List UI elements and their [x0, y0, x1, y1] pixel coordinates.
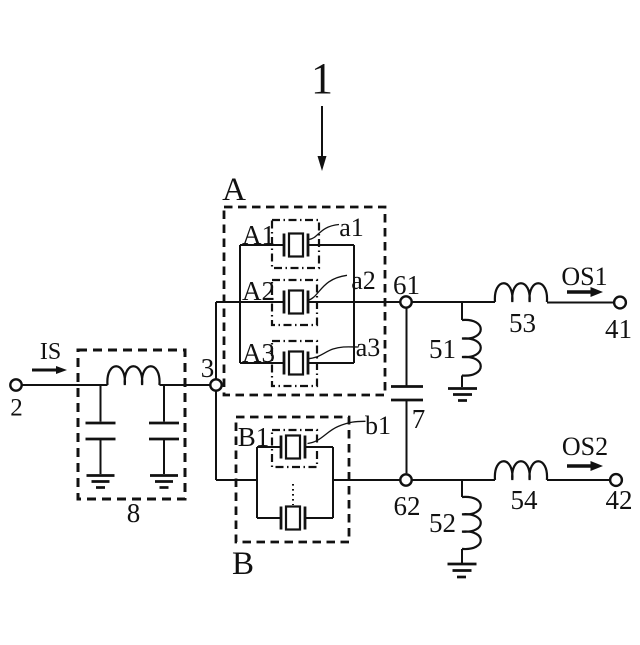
svg-text:IS: IS	[40, 339, 61, 365]
wire row B1	[257, 446, 281, 448]
matching circuit dashed box 8	[78, 350, 185, 499]
arrow from label 1	[318, 106, 327, 171]
svg-text:a2: a2	[351, 266, 376, 295]
IS input arrow	[32, 366, 67, 374]
wire row A1	[240, 244, 284, 246]
wire node 3 riser to block B	[216, 479, 257, 481]
wire block B to node 62	[333, 479, 400, 481]
svg-text:A: A	[222, 172, 246, 208]
svg-text:54: 54	[511, 485, 539, 515]
wire inductor 53 to terminal 41	[547, 302, 614, 304]
capacitor 7	[391, 387, 423, 401]
leader a1	[309, 225, 339, 240]
block A dashed box	[224, 207, 385, 395]
resonator (bottom, unlabeled) in B	[281, 507, 305, 530]
leader b1	[308, 421, 366, 443]
wire node 61 to inductor 53	[412, 301, 495, 303]
wire row B bottom resonator	[257, 517, 281, 519]
ground (right, box 8)	[150, 476, 178, 488]
leader a3	[307, 347, 359, 359]
wire row A2	[216, 301, 284, 303]
dash-dot box around resonator A1	[272, 220, 319, 268]
svg-text:7: 7	[412, 404, 426, 434]
resonator A2	[284, 291, 308, 314]
wire inductor 54 to terminal 42	[547, 479, 610, 481]
resonator B1	[281, 436, 305, 459]
wire node 62 to inductor 54	[412, 479, 495, 481]
input terminal 2	[10, 379, 21, 390]
ellipsis dotted wire in B	[292, 484, 294, 505]
wire node 61 down to capacitor 7	[406, 308, 408, 386]
svg-text:41: 41	[605, 314, 632, 344]
svg-text:52: 52	[429, 508, 456, 538]
svg-text:53: 53	[509, 308, 536, 338]
OS1 output arrow	[567, 287, 603, 297]
svg-text:B: B	[232, 546, 254, 582]
node 3 terminal circle	[210, 379, 221, 390]
svg-text:A1: A1	[242, 220, 275, 250]
right bus wire in A	[353, 245, 355, 363]
node 62 circle	[400, 474, 411, 485]
node 3 riser wire (up)	[215, 302, 217, 379]
svg-text:8: 8	[127, 498, 141, 528]
svg-text:61: 61	[393, 270, 420, 300]
shunt inductor 51	[462, 302, 481, 387]
inductor in box 8	[107, 366, 159, 385]
svg-text:1: 1	[311, 54, 333, 103]
resonator A3	[284, 352, 308, 375]
capacitor (right) in box 8	[149, 385, 179, 474]
svg-text:62: 62	[394, 491, 421, 521]
dash-dot box around resonator A2	[272, 280, 317, 325]
inductor 54	[495, 461, 547, 480]
svg-text:OS2: OS2	[562, 432, 608, 461]
ground (left, box 8)	[87, 476, 115, 488]
node 3 riser wire (down)	[215, 391, 217, 480]
ground under 52	[448, 564, 477, 577]
resonator A1	[284, 234, 308, 257]
svg-text:A2: A2	[242, 276, 275, 306]
svg-text:3: 3	[201, 353, 215, 383]
svg-text:42: 42	[606, 485, 633, 515]
node 61 circle	[400, 296, 411, 307]
output terminal 41	[614, 297, 626, 309]
right bracket wire in B	[332, 447, 334, 518]
wire capacitor 7 down to node 62	[406, 401, 408, 473]
block B dashed box	[236, 417, 349, 542]
dash-dot box around resonator A3	[272, 341, 317, 386]
inductor 53	[495, 283, 547, 302]
svg-text:2: 2	[10, 395, 23, 422]
OS2 output arrow	[567, 461, 603, 471]
svg-text:OS1: OS1	[561, 262, 607, 291]
output terminal 42	[610, 474, 622, 486]
left bus wire in A	[239, 245, 241, 363]
svg-text:A3: A3	[242, 338, 275, 368]
capacitor (left) in box 8	[86, 385, 116, 474]
svg-text:a3: a3	[356, 333, 381, 362]
input wire from 2 into box 8	[22, 384, 108, 386]
svg-text:B1: B1	[238, 422, 270, 452]
dash-dot box around resonator B1	[272, 430, 317, 467]
svg-text:b1: b1	[365, 411, 391, 440]
svg-text:a1: a1	[339, 213, 364, 242]
shunt inductor 52	[462, 480, 481, 563]
svg-text:51: 51	[429, 334, 456, 364]
left bracket wire in B	[256, 447, 258, 518]
ground under 51	[448, 389, 477, 401]
wire row A3	[240, 362, 284, 364]
leader a2	[308, 275, 348, 300]
wire inductor8 to node 3	[160, 384, 211, 386]
